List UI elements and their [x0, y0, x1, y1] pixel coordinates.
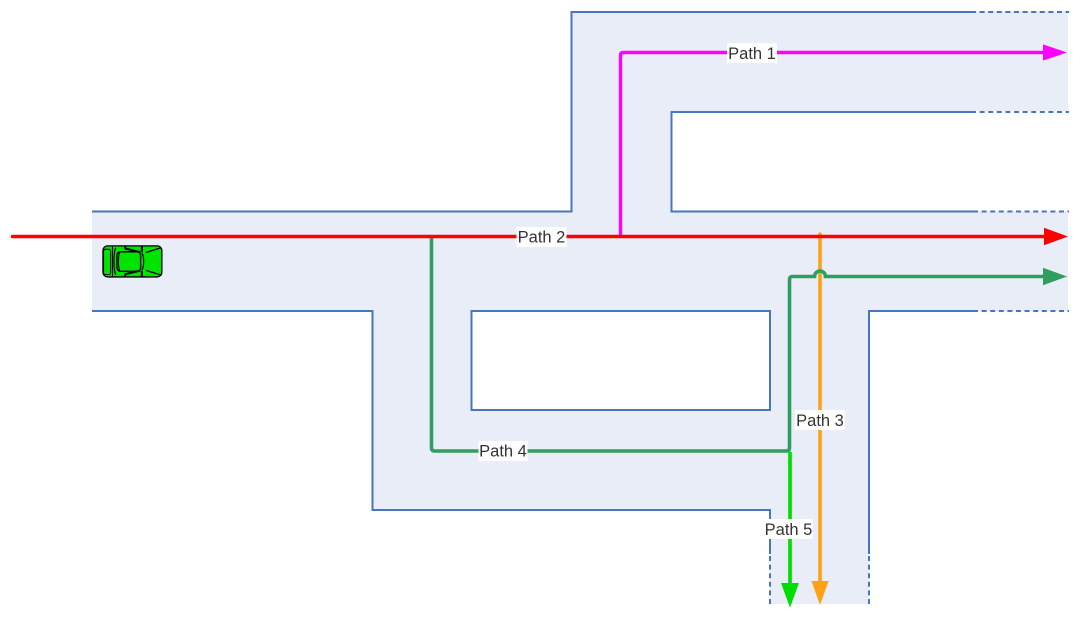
- svg-text:Path 2: Path 2: [518, 229, 566, 247]
- svg-text:Path 3: Path 3: [796, 412, 844, 430]
- svg-text:Path 5: Path 5: [765, 521, 813, 539]
- svg-text:Path 4: Path 4: [479, 443, 527, 461]
- svg-text:Path 1: Path 1: [728, 45, 776, 63]
